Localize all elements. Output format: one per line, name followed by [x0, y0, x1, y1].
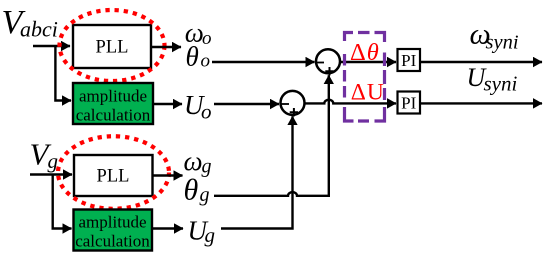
svg-text:amplitude: amplitude	[79, 87, 147, 106]
PI block 2	[398, 92, 421, 114]
wire Vabci to PLL U1	[33, 45, 70, 47]
svg-text:PLL: PLL	[96, 38, 129, 58]
svg-text:Δθ: Δθ	[350, 39, 379, 66]
svg-text:o: o	[201, 50, 211, 71]
wire PLL U2 output to omega_g	[153, 174, 183, 176]
red dotted ellipse around PLL U1	[60, 10, 165, 81]
svg-text:PI: PI	[401, 93, 416, 112]
plus sign junction 2	[290, 108, 298, 116]
wire summing junction 2 to PI 2, hop over theta riser	[305, 100, 396, 104]
wire theta_g right, hop over Ug riser, then up into summing junction 1	[214, 75, 329, 196]
plus sign junction 1	[325, 67, 333, 75]
svg-text:abci: abci	[20, 17, 58, 42]
wire summing junction 1 to PI 1	[341, 61, 397, 63]
svg-text:o: o	[202, 28, 212, 49]
svg-text:θ: θ	[186, 42, 199, 72]
purple dashed box around delta signals	[345, 33, 385, 122]
svg-text:PI: PI	[401, 51, 416, 70]
PLL block U2	[74, 155, 153, 196]
wire PI 1 output omega_syni	[419, 61, 542, 63]
wire Uo to summing junction 2	[214, 103, 279, 105]
wire amplitude calc 1 output to Uo	[153, 103, 182, 105]
wire theta_o to summing junction 1	[212, 61, 315, 63]
svg-text:syni: syni	[484, 72, 518, 96]
svg-text:PLL: PLL	[97, 167, 130, 187]
amplitude calculation block 2	[74, 210, 153, 251]
svg-text:calculation: calculation	[75, 232, 150, 251]
wire branch Vg down to amplitude calc 2	[53, 175, 72, 229]
PLL block U1	[73, 25, 151, 68]
wire Ug right then up into summing junction 2	[221, 116, 293, 228]
PI block 1	[398, 49, 421, 71]
svg-text:g: g	[205, 223, 216, 247]
svg-text:calculation: calculation	[76, 106, 151, 125]
summing junction 1 (theta)	[316, 49, 340, 73]
wire PI 2 output U_syni	[419, 102, 542, 104]
svg-text:g: g	[202, 155, 212, 177]
summing junction 2 (U)	[281, 91, 305, 115]
red dotted ellipse around PLL U2	[58, 136, 169, 209]
amplitude calculation block 1	[73, 83, 153, 124]
svg-text:ω: ω	[184, 146, 203, 176]
svg-text:g: g	[200, 184, 210, 206]
wire amplitude calc 2 output to Ug	[152, 227, 183, 229]
wire PLL U1 output to omega_o	[151, 46, 181, 48]
svg-text:ΔU: ΔU	[351, 80, 384, 106]
wire Vg to PLL U2	[30, 173, 72, 175]
svg-text:syni: syni	[486, 31, 519, 53]
wire branch Vabci down to amplitude calc	[55, 46, 71, 101]
minus sign junction 2	[282, 103, 290, 105]
svg-text:o: o	[201, 99, 212, 123]
svg-text:amplitude: amplitude	[79, 213, 147, 232]
svg-text:θ: θ	[184, 174, 199, 207]
minus sign junction 1	[317, 62, 325, 64]
